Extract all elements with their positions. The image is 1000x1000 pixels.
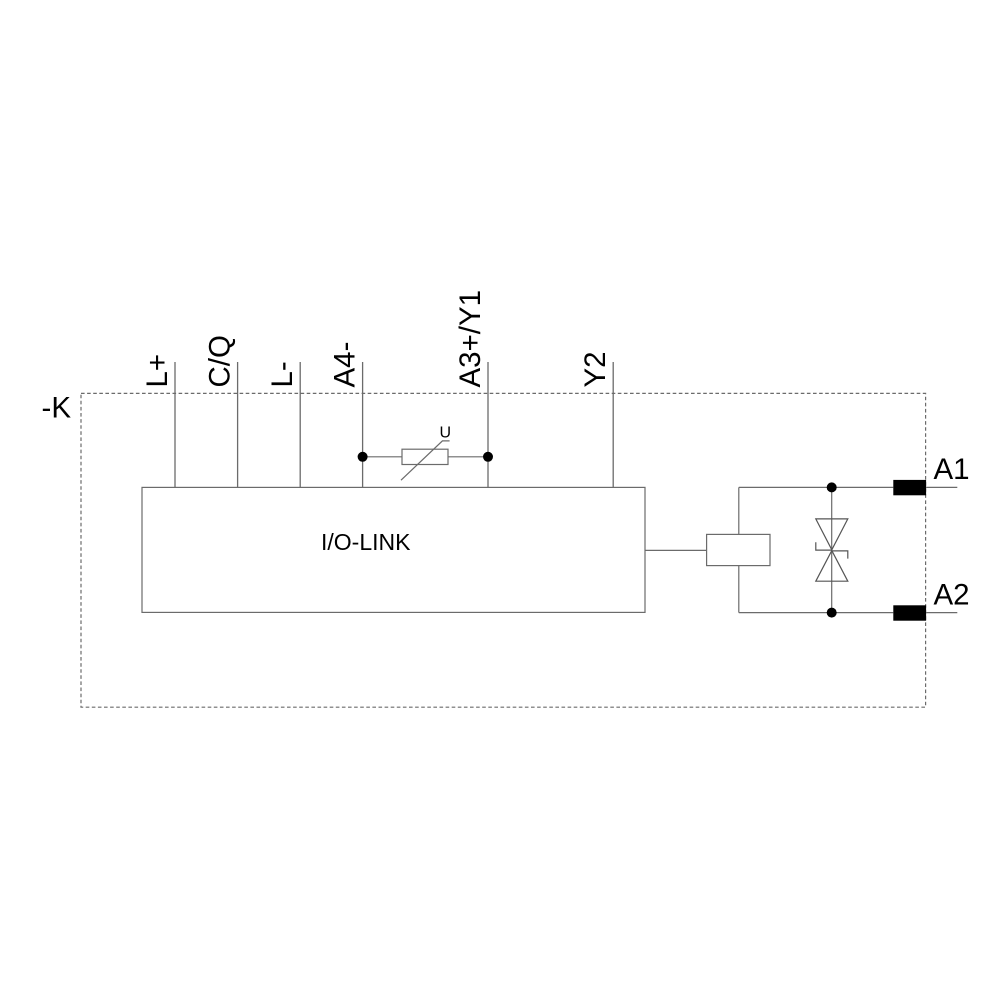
svg-text:A2: A2 [934, 578, 970, 611]
svg-text:A1: A1 [934, 453, 970, 486]
svg-text:U: U [440, 424, 452, 441]
svg-text:-K: -K [42, 392, 72, 425]
svg-text:A4-: A4- [329, 342, 362, 388]
svg-text:L-: L- [266, 361, 299, 387]
svg-text:C/Q: C/Q [204, 335, 237, 387]
svg-text:A3+/Y1: A3+/Y1 [454, 290, 487, 388]
svg-text:L+: L+ [141, 354, 174, 388]
svg-text:I/O-LINK: I/O-LINK [321, 529, 411, 555]
svg-text:Y2: Y2 [579, 351, 612, 387]
